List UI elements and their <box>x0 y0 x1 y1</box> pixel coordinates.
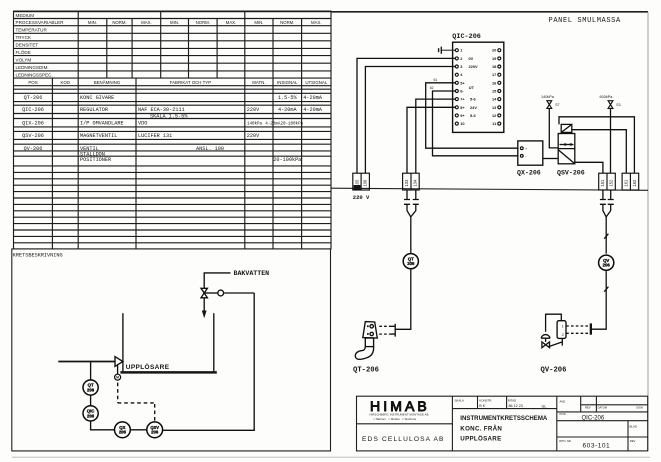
svg-text:INSIGNAL: INSIGNAL <box>277 80 298 85</box>
wire terminal 133 to pin8 <box>407 107 455 173</box>
svg-text:NORM.: NORM. <box>196 20 210 25</box>
svg-text:VOLYM: VOLYM <box>16 58 32 63</box>
svg-text:152: 152 <box>608 179 613 187</box>
drawing top border <box>331 11 648 13</box>
wire terminal 134 to pin7 <box>416 99 456 173</box>
svg-text:603-101: 603-101 <box>583 442 611 449</box>
actuator dome <box>541 335 550 339</box>
solenoid flag <box>558 124 575 163</box>
svg-text:FABRIKAT OCH TYP: FABRIKAT OCH TYP <box>170 80 212 85</box>
valve body arrows <box>560 144 574 146</box>
svg-text:QV-206: QV-206 <box>24 146 43 152</box>
wire actuator to right riser <box>224 292 255 294</box>
wire valve outlet into vessel <box>203 298 205 311</box>
svg-text:UTSIGNAL: UTSIGNAL <box>305 80 328 85</box>
svg-text:POS.: POS. <box>560 412 567 416</box>
wire QX to QSV <box>130 429 147 431</box>
instrument bubble QT 206 (field) <box>403 254 418 269</box>
wire QSV out to terminal 151 <box>575 162 603 173</box>
wire 600kPa supply to terminal 152 <box>610 108 612 173</box>
svg-text:20-100kPa: 20-100kPa <box>280 121 303 126</box>
svg-text:QSV-206: QSV-206 <box>22 133 44 139</box>
wire 152 below boundary <box>606 190 614 217</box>
svg-text:13: 13 <box>492 105 497 110</box>
svg-text:3: 3 <box>460 64 463 69</box>
svg-text:2: 2 <box>460 56 463 61</box>
svg-text:POS: POS <box>28 80 37 85</box>
svg-text:10: 10 <box>460 121 464 126</box>
svg-text:220V: 220V <box>247 107 260 113</box>
svg-text:MAX.: MAX. <box>226 20 237 25</box>
svg-text:4-20mA: 4-20mA <box>303 95 323 101</box>
svg-text:1: 1 <box>562 325 564 329</box>
svg-text:QIC-206: QIC-206 <box>582 415 605 421</box>
svg-text:18: 18 <box>492 64 497 69</box>
svg-text:I/P OMVANDLARE: I/P OMVANDLARE <box>80 120 124 126</box>
svg-text:MAX.: MAX. <box>141 20 152 25</box>
spec table column headers <box>28 80 327 85</box>
svg-text:162: 162 <box>632 179 637 187</box>
spec table horizontal rules empty rows <box>14 172 332 242</box>
svg-text:GL: GL <box>542 404 547 408</box>
terminal block 133/134 <box>403 173 420 190</box>
svg-text:FLÖDE: FLÖDE <box>16 49 31 55</box>
svg-text:NAF ECA-30-2111: NAF ECA-30-2111 <box>138 107 185 113</box>
pins right column circles <box>498 49 501 125</box>
svg-text:MIN.: MIN. <box>254 20 263 25</box>
svg-text:62: 62 <box>430 86 434 90</box>
svg-text:4-20mA: 4-20mA <box>278 107 298 113</box>
svg-text:140kPa: 140kPa <box>541 95 555 99</box>
svg-text:220 V: 220 V <box>353 194 370 201</box>
wire QIC down and right to QX <box>91 421 115 430</box>
svg-text:REGULATOR: REGULATOR <box>80 107 108 113</box>
sensor neck <box>365 338 373 347</box>
svg-text:61: 61 <box>434 78 438 82</box>
wire QT to QIC <box>90 395 92 406</box>
svg-text:206: 206 <box>603 263 611 268</box>
svg-text:4-20mA: 4-20mA <box>265 122 281 126</box>
svg-text:□ Mätrum □ Motala □ Skoftu: □ Mätrum □ Motala □ Skoftuna <box>374 417 417 421</box>
vessel floor <box>120 371 216 374</box>
wire pair down to QV bubble <box>605 217 607 254</box>
terminal block 151/152 <box>599 173 616 190</box>
positioner connector bar <box>590 323 592 334</box>
svg-text:QIX-206: QIX-206 <box>22 120 44 126</box>
svg-text:HIRSCHBERG INSTRUMENT MONTAGE: HIRSCHBERG INSTRUMENT MONTAGE AB <box>370 412 429 416</box>
stem link to positioner <box>548 339 562 347</box>
svg-text:2: 2 <box>562 333 564 337</box>
svg-text:SKALA: SKALA <box>455 398 464 402</box>
svg-text:7+: 7+ <box>460 97 465 102</box>
svg-text:134: 134 <box>413 179 418 187</box>
pin numbers left <box>460 48 478 126</box>
spec table vertical rules <box>52 11 301 249</box>
logo/middle/right dividers <box>452 396 556 451</box>
wire right riser down to QSV loop <box>163 293 255 430</box>
svg-text:MATN.: MATN. <box>252 80 265 85</box>
wire 133 below boundary <box>404 190 411 217</box>
transmitter connector bracket <box>390 324 395 337</box>
svg-text:220V: 220V <box>469 64 478 69</box>
svg-text:206: 206 <box>87 413 95 418</box>
svg-text:KONSTR.: KONSTR. <box>479 398 492 402</box>
pins left column circles <box>455 49 458 125</box>
svg-text:REV: REV <box>585 405 591 409</box>
instrument bubble QX 206 <box>115 422 131 438</box>
kretsbeskrivning panel frame <box>12 249 331 451</box>
instrument bubble QIC 206 <box>83 406 98 421</box>
svg-text:BAKVATTEN: BAKVATTEN <box>234 270 270 277</box>
svg-text:161: 161 <box>624 179 629 187</box>
tubing positioner to actuator <box>546 314 562 332</box>
wire 61 pin5 to QX-206 + <box>426 83 518 148</box>
svg-text:206: 206 <box>151 430 159 435</box>
instrument bubble QV 206 <box>599 255 614 270</box>
spec table MIN NORM MAX headers <box>88 20 322 25</box>
dashed leads to positioner <box>566 326 590 333</box>
svg-text:106: 106 <box>363 179 368 187</box>
svg-text:140kPa: 140kPa <box>247 121 263 126</box>
wire QV bubble down to valve <box>592 270 606 329</box>
dashed leads to sensor <box>379 326 390 334</box>
svg-text:NORM.: NORM. <box>112 20 126 25</box>
svg-text:KOD: KOD <box>61 80 71 85</box>
svg-text:HIMAB: HIMAB <box>370 398 430 414</box>
spec table horizontal rules upper <box>14 19 332 79</box>
node BAKVATTEN leader wire <box>204 273 230 289</box>
svg-text:0V: 0V <box>469 56 474 61</box>
wire 151 below boundary <box>600 190 606 217</box>
panel/field boundary line <box>331 188 648 190</box>
svg-text:LEDNINGSDIM.: LEDNINGSDIM. <box>16 65 49 70</box>
svg-text:600kPa: 600kPa <box>600 95 614 99</box>
svg-text:5-6: 5-6 <box>470 97 476 102</box>
svg-text:MEDIUM: MEDIUM <box>16 13 35 18</box>
wire joined pair down to QT bubble <box>410 217 412 254</box>
bottom faint line <box>12 456 650 458</box>
terminal block 161/162 <box>622 173 639 190</box>
spec table row labels <box>16 13 65 78</box>
wire 134 below boundary <box>411 190 419 217</box>
wire 140kPa supply to QSV <box>549 108 558 147</box>
svg-text:QV-206: QV-206 <box>541 367 567 375</box>
sensor hook body <box>355 347 373 360</box>
wire QX-206 out to QSV-206 <box>543 158 558 160</box>
motor M <box>115 374 121 380</box>
svg-text:AVD: AVD <box>560 399 566 403</box>
svg-text:KRETSBESKRIVNING: KRETSBESKRIVNING <box>13 252 63 258</box>
svg-text:206: 206 <box>407 261 415 266</box>
pin numbers right <box>492 48 497 126</box>
instrument bubble QSV 206 <box>147 422 163 438</box>
svg-text:MAX.: MAX. <box>311 20 322 25</box>
pipe into vessel <box>58 361 115 363</box>
QSV-206 valve body arrowheads <box>565 143 569 146</box>
vessel right wall <box>213 313 215 371</box>
svg-text:UT: UT <box>469 85 475 90</box>
svg-text:UPPLÖSARE: UPPLÖSARE <box>126 362 170 371</box>
valve body <box>558 134 575 164</box>
valve stem <box>545 338 547 342</box>
svg-text:RITN. NR: RITN. NR <box>559 439 571 443</box>
svg-text:QT-206: QT-206 <box>24 95 43 101</box>
svg-text:20-100kPa: 20-100kPa <box>273 157 301 163</box>
svg-text:MIN.: MIN. <box>88 20 97 25</box>
svg-text:206: 206 <box>119 430 127 435</box>
wire pin2 to terminal 105 <box>357 58 455 173</box>
agitator stem <box>117 366 119 375</box>
svg-text:4: 4 <box>460 72 463 77</box>
svg-text:14: 14 <box>492 97 497 102</box>
wire pipe tap down to QT bubble <box>90 362 92 380</box>
instrument bubble QT 206 <box>83 380 98 395</box>
svg-text:133: 133 <box>404 179 409 187</box>
svg-text:QIC-206: QIC-206 <box>452 33 481 41</box>
svg-text:SIGN: SIGN <box>636 405 643 409</box>
svg-text:UPPLÖSARE: UPPLÖSARE <box>460 436 501 443</box>
svg-text:20: 20 <box>492 48 496 53</box>
svg-text:17: 17 <box>492 72 496 77</box>
svg-text:TEMPERATUR: TEMPERATUR <box>16 28 48 33</box>
pneumatic tick above bubble <box>604 234 608 239</box>
pin 1 antenna symbol <box>439 47 456 54</box>
svg-text:1: 1 <box>460 48 463 53</box>
svg-text:SKALA 1.5-5%: SKALA 1.5-5% <box>150 114 188 120</box>
svg-text:11: 11 <box>492 121 497 126</box>
svg-text:86 12 23: 86 12 23 <box>509 404 523 408</box>
spec table horizontal rules data rows <box>14 86 332 166</box>
svg-text:RITAD: RITAD <box>508 398 516 402</box>
svg-text:REV: REV <box>630 439 636 443</box>
svg-text:151: 151 <box>600 179 605 187</box>
svg-text:+: + <box>525 147 527 151</box>
svg-text:PANEL SMULMASSA: PANEL SMULMASSA <box>549 17 621 25</box>
svg-text:QT-206: QT-206 <box>353 367 379 375</box>
svg-text:QIC-206: QIC-206 <box>22 107 44 113</box>
spec table frame <box>14 11 332 249</box>
svg-text:B K: B K <box>479 404 485 408</box>
sensor QT-206 head <box>355 322 377 360</box>
svg-text:VDO: VDO <box>138 120 147 126</box>
svg-text:KONC GIVARE: KONC GIVARE <box>80 95 114 101</box>
svg-text:QSV-206: QSV-206 <box>557 170 585 177</box>
svg-text:ANSL. 100: ANSL. 100 <box>196 146 224 152</box>
svg-text:6-: 6- <box>460 89 464 94</box>
svg-text:NORM.: NORM. <box>280 20 294 25</box>
svg-text:-: - <box>525 155 527 159</box>
svg-text:LEDNINGSSPEC.: LEDNINGSSPEC. <box>16 72 53 77</box>
pneumatic tick below bubble <box>604 287 608 292</box>
dashed signal M to QSV <box>118 383 155 422</box>
svg-text:105: 105 <box>354 179 359 187</box>
svg-text:BENÄMNING: BENÄMNING <box>94 80 121 85</box>
wire QSV top to terminal 162 <box>559 117 634 173</box>
svg-text:MAGNETVENTIL: MAGNETVENTIL <box>80 133 117 139</box>
svg-text:1.5-5%: 1.5-5% <box>278 95 298 101</box>
svg-text:INSTRUMENTKRETSSCHEMA: INSTRUMENTKRETSSCHEMA <box>460 415 548 422</box>
svg-text:BLAD: BLAD <box>630 424 638 428</box>
svg-text:12: 12 <box>492 113 497 118</box>
wire 62 pin6 to QX-206 - <box>433 91 518 156</box>
svg-text:KONC. FRÅN: KONC. FRÅN <box>460 426 502 433</box>
valve V1 (bakvatten inlet) <box>201 288 207 298</box>
wire pin3 to terminal 106 <box>365 67 455 174</box>
svg-text:5-6: 5-6 <box>470 113 476 118</box>
terminal strip body <box>453 42 504 132</box>
svg-text:4-20mA: 4-20mA <box>303 107 323 113</box>
valve V1 actuator circle <box>204 292 218 294</box>
svg-text:POSITIONER: POSITIONER <box>80 157 111 163</box>
wire QSV flag to terminal 161 <box>572 130 627 174</box>
svg-text:19: 19 <box>492 56 497 61</box>
svg-text:PROCESSVARIABLER: PROCESSVARIABLER <box>16 20 65 25</box>
svg-text:M: M <box>116 376 119 380</box>
valve body lower diagonal <box>558 150 575 164</box>
svg-text:9+: 9+ <box>460 113 465 118</box>
svg-text:MIN.: MIN. <box>170 20 179 25</box>
svg-text:24V: 24V <box>470 105 477 110</box>
drawing right border <box>647 12 649 451</box>
svg-text:DENSITET: DENSITET <box>16 43 39 48</box>
svg-text:EDS CELLULOSA AB: EDS CELLULOSA AB <box>362 436 445 443</box>
svg-text:QX-206: QX-206 <box>517 170 541 177</box>
spec table data rows text <box>22 95 323 163</box>
svg-text:206: 206 <box>87 387 95 392</box>
vessel UPPLÖSARE left wall <box>122 313 124 371</box>
svg-text:S3: S3 <box>616 103 620 107</box>
svg-text:S7: S7 <box>555 103 559 107</box>
valve body bowtie <box>542 342 550 348</box>
svg-text:16: 16 <box>492 80 497 85</box>
svg-text:220V: 220V <box>247 133 260 139</box>
nozzle triangle <box>115 357 123 367</box>
svg-text:8+: 8+ <box>460 105 465 110</box>
arrow into vessel <box>202 311 207 319</box>
terminal block 105/106 <box>353 173 370 190</box>
svg-text:DATUM: DATUM <box>598 405 608 409</box>
svg-text:TRYCK: TRYCK <box>16 35 32 40</box>
svg-text:LUCIFER 131: LUCIFER 131 <box>138 133 172 139</box>
title fields <box>455 398 643 449</box>
positioner box <box>557 321 566 339</box>
wire QT bubble to transmitter <box>395 269 411 330</box>
svg-text:15: 15 <box>492 89 497 94</box>
svg-text:5+: 5+ <box>460 80 465 85</box>
